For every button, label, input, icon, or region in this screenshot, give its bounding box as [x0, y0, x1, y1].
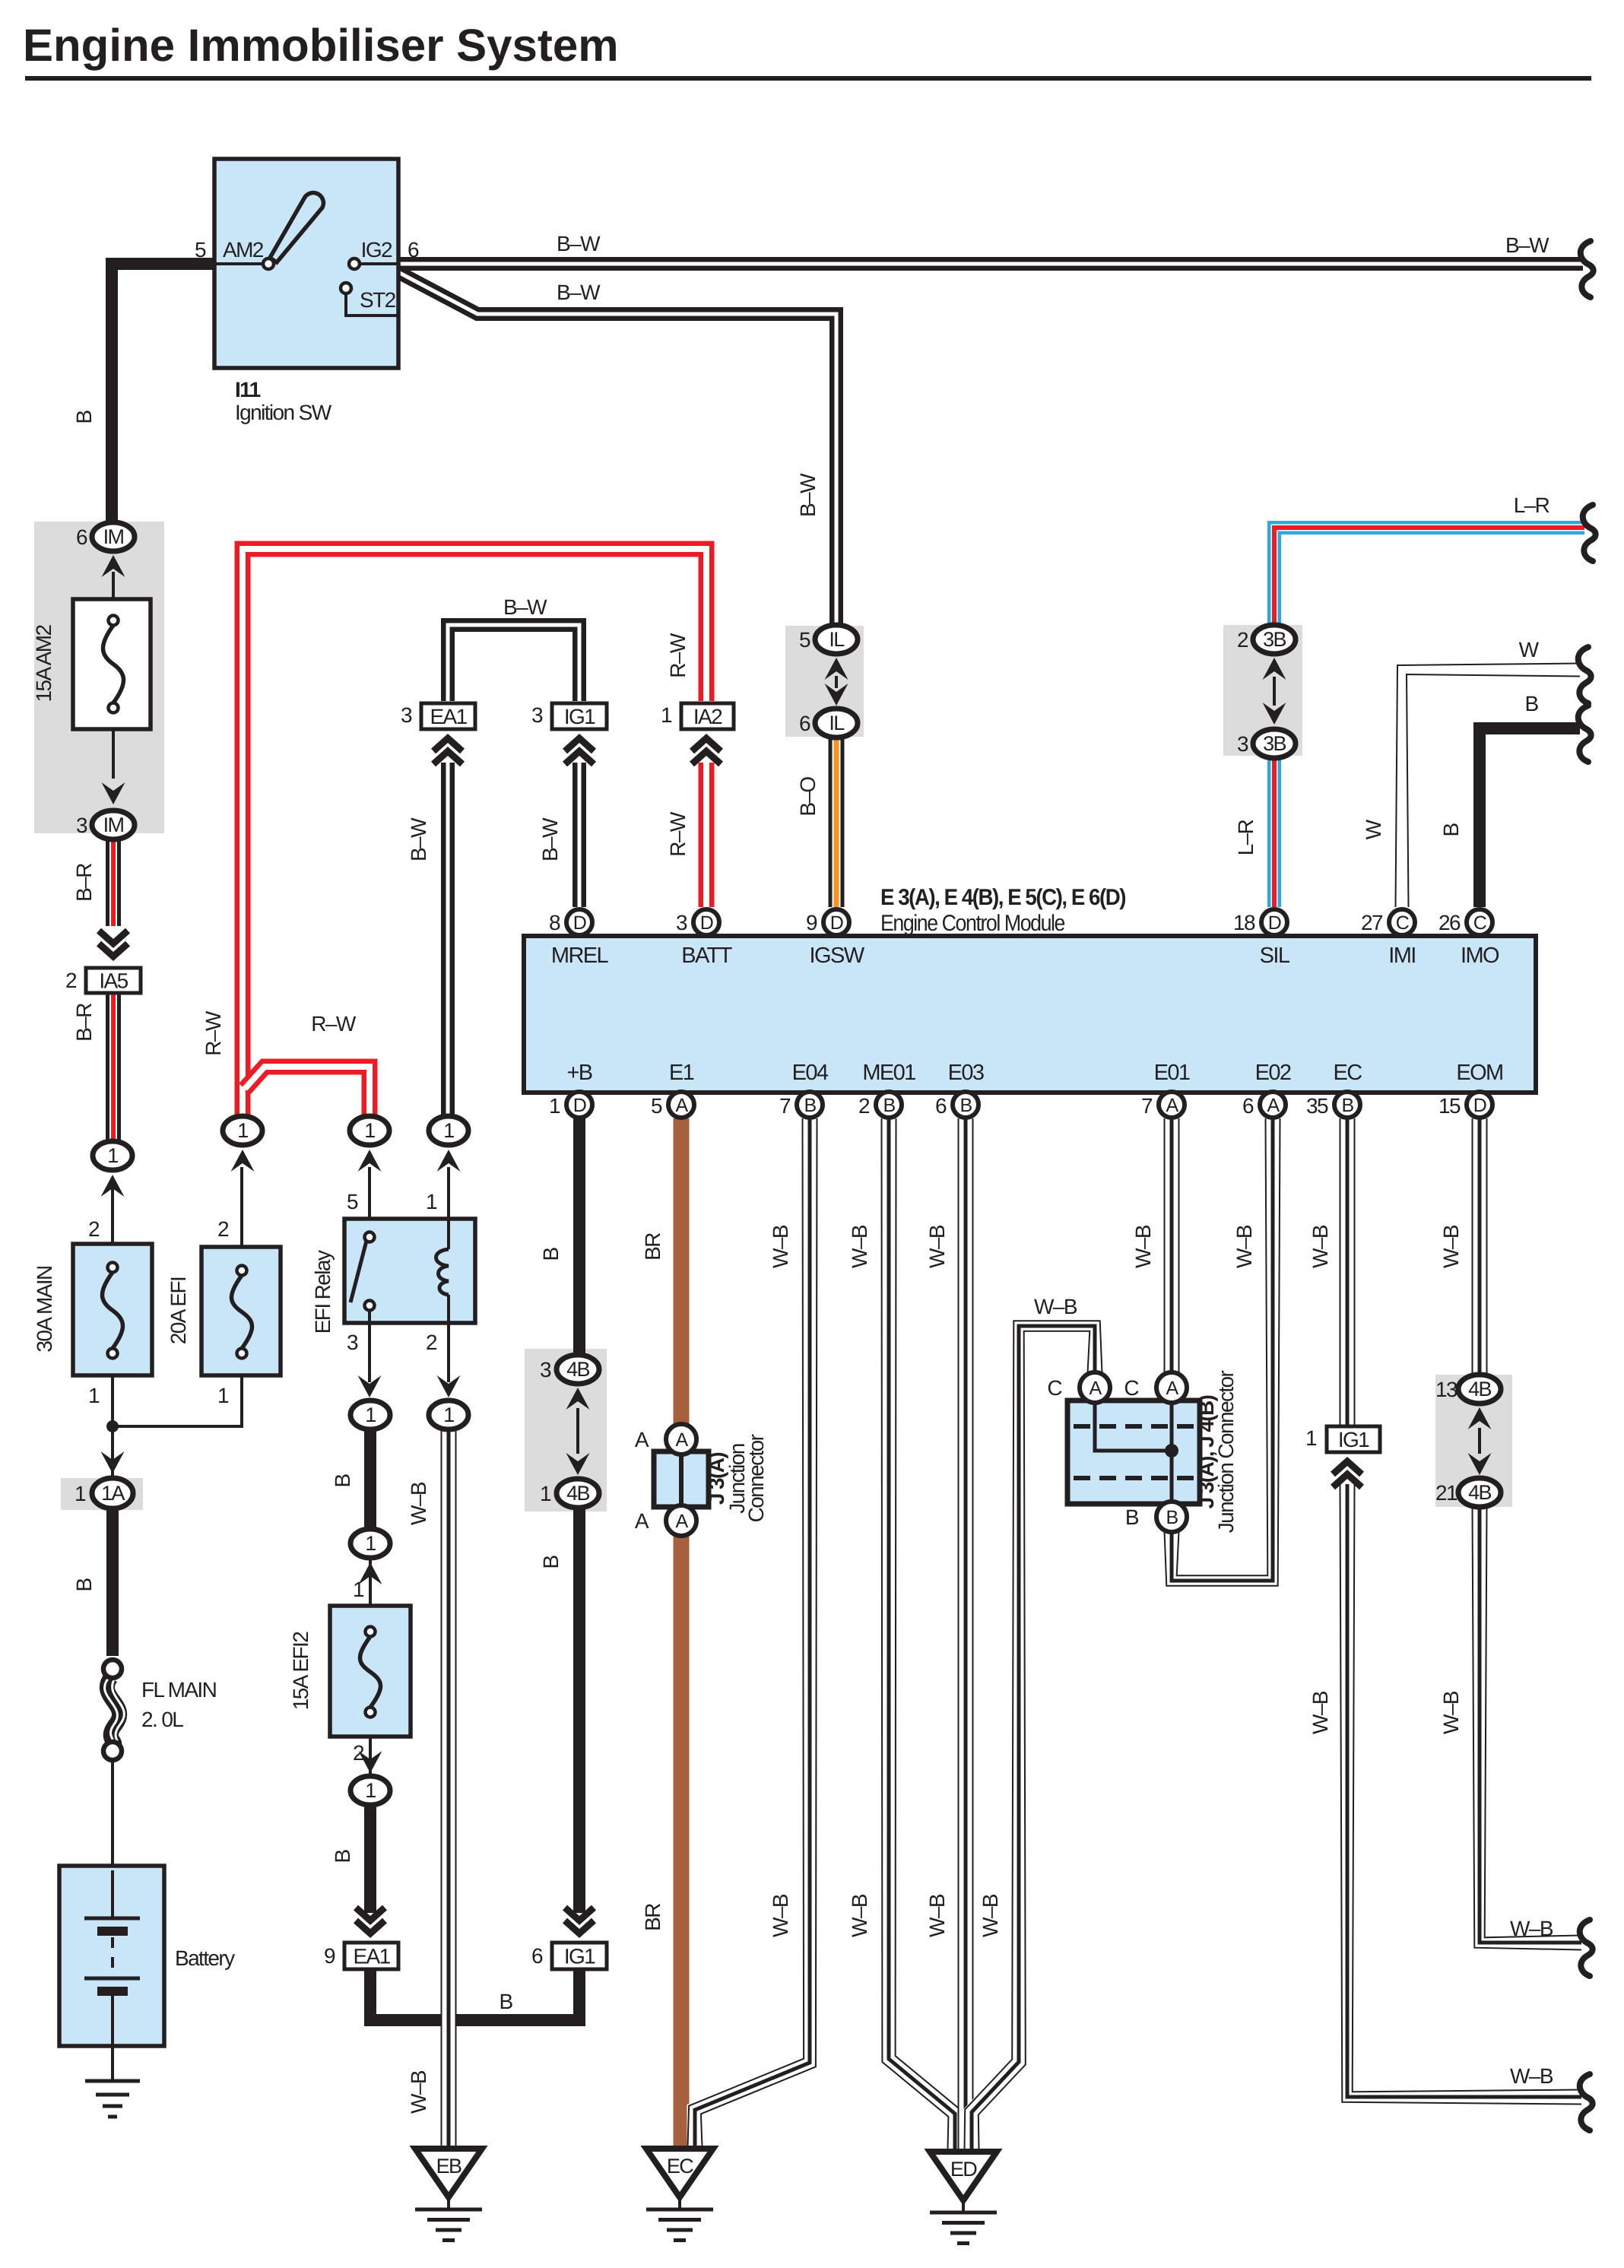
- svg-text:1: 1: [107, 1144, 118, 1167]
- ECM pin 7 E04: [797, 1092, 823, 1118]
- svg-text:B: B: [959, 1095, 972, 1116]
- wire L-R from 3B connector to right edge: [1274, 528, 1584, 625]
- svg-text:W–B: W–B: [979, 1894, 1002, 1937]
- ECM pin 3 BATT: [693, 909, 719, 935]
- svg-text:Junction Connector: Junction Connector: [1214, 1371, 1238, 1534]
- arrow up under 5 IL: [825, 658, 848, 680]
- wire from connector 1 to 15A EFI2 fuse: [369, 1555, 372, 1609]
- svg-text:21: 21: [1435, 1481, 1457, 1505]
- arrow up under 13 4B: [1468, 1407, 1492, 1429]
- wire W-B below 1 IG1 connector: [1347, 1484, 1581, 2097]
- svg-text:R–W: R–W: [201, 1010, 225, 1056]
- connector oval 3 IM: [92, 810, 135, 839]
- connector oval 1 4B: [557, 1479, 599, 1508]
- wire continuation squiggle B-W: [1581, 241, 1594, 297]
- svg-text:18: 18: [1233, 911, 1255, 934]
- arrow down into 3 IM: [102, 782, 125, 804]
- svg-text:B–W: B–W: [407, 817, 430, 861]
- arrow up under oval (relay coil feed): [437, 1150, 461, 1172]
- battery plate short 1: [97, 1927, 128, 1936]
- arrow down into 21 4B: [1468, 1453, 1492, 1475]
- double arrow into 3 IG1: [565, 738, 594, 751]
- ECM pin 8 MREL: [566, 909, 592, 935]
- svg-text:B–W: B–W: [538, 817, 562, 861]
- svg-text:W–B: W–B: [1510, 1917, 1553, 1940]
- wire B from ignition switch AM2 to connector 6 IM: [112, 264, 216, 525]
- svg-text:W–B: W–B: [1308, 1691, 1332, 1734]
- arrow down into 6 IL: [825, 684, 848, 706]
- fuse 15A AM2 box: [73, 599, 151, 729]
- svg-text:3: 3: [347, 1331, 358, 1354]
- svg-text:R–W: R–W: [666, 811, 690, 857]
- svg-text:IG1: IG1: [1338, 1428, 1369, 1451]
- svg-text:3: 3: [531, 703, 543, 727]
- svg-text:W–B: W–B: [407, 2070, 430, 2114]
- junction pin B (bottom): [1156, 1502, 1187, 1532]
- wire continuation squiggle L-R: [1583, 505, 1596, 561]
- wire from EFI relay pin 2 to connector 1: [447, 1323, 450, 1382]
- wire W from ECM IMI to right edge: [1402, 670, 1580, 907]
- connector oval 1 (below EFI2): [350, 1776, 390, 1805]
- svg-text:1: 1: [426, 1190, 437, 1213]
- wire from 30A MAIN to junction and connector 1A: [111, 1372, 114, 1481]
- svg-text:Battery: Battery: [175, 1946, 235, 1970]
- svg-text:6: 6: [935, 1094, 947, 1118]
- svg-text:2: 2: [858, 1094, 870, 1118]
- svg-text:Connector: Connector: [744, 1434, 768, 1522]
- wire B-W from IG2 pin 6 to right edge: [397, 257, 1583, 271]
- wire B from ECM IMO to right edge: [1480, 728, 1580, 907]
- svg-text:W–B: W–B: [769, 1225, 792, 1268]
- svg-text:R–W: R–W: [311, 1012, 357, 1036]
- wire W-B from ECM E02 to junction connector pin B: [1172, 1118, 1273, 1581]
- svg-text:W–B: W–B: [925, 1225, 949, 1268]
- wire B from connector 1A to fusible link FL MAIN: [106, 1508, 119, 1656]
- svg-text:3: 3: [76, 814, 87, 837]
- svg-text:1: 1: [443, 1404, 454, 1426]
- fuse 30A MAIN box: [73, 1244, 152, 1375]
- svg-text:20A EFI: 20A EFI: [167, 1277, 190, 1344]
- svg-text:1: 1: [353, 1578, 364, 1601]
- svg-text:35: 35: [1306, 1094, 1328, 1118]
- svg-text:W–B: W–B: [1439, 1225, 1463, 1268]
- svg-text:6: 6: [76, 525, 87, 549]
- svg-text:SIL: SIL: [1260, 944, 1290, 968]
- svg-text:A: A: [1089, 1378, 1102, 1399]
- ECM pin 26 IMO: [1467, 909, 1492, 935]
- svg-text:W–B: W–B: [848, 1225, 871, 1268]
- svg-text:1: 1: [365, 1404, 376, 1426]
- svg-text:A: A: [635, 1509, 649, 1533]
- svg-text:MREL: MREL: [551, 944, 609, 968]
- junction connector J3(A) pin A bottom: [666, 1505, 696, 1536]
- svg-text:IG1: IG1: [564, 1945, 595, 1968]
- svg-text:6: 6: [1242, 1094, 1254, 1118]
- arrow down into oval (below EFI2): [359, 1751, 382, 1773]
- arrow down into 1A: [101, 1451, 125, 1473]
- double arrow into 1 IA2: [692, 738, 721, 751]
- svg-text:AM2: AM2: [223, 238, 264, 262]
- EFI relay box: [344, 1219, 475, 1323]
- junction pin A right (C): [1156, 1372, 1187, 1403]
- svg-text:IMO: IMO: [1461, 944, 1499, 968]
- svg-text:B–W: B–W: [557, 281, 601, 304]
- wire B-W from IG1 connector down to ECM MREL: [573, 763, 586, 907]
- svg-text:3B: 3B: [1263, 628, 1286, 651]
- wire B-W from EA1 connector down to relay coil connector 1: [441, 763, 455, 1115]
- svg-text:IG2: IG2: [361, 238, 392, 262]
- arrow up under oval (relay pin5 feed): [358, 1150, 382, 1172]
- relay contact top (pin 5): [365, 1232, 375, 1242]
- svg-text:D: D: [700, 912, 713, 934]
- svg-text:B: B: [1125, 1505, 1139, 1529]
- junction connector dashed line 1: [1074, 1424, 1194, 1429]
- ECM pin 27 IMI: [1389, 909, 1415, 935]
- svg-text:4B: 4B: [1468, 1481, 1491, 1504]
- svg-text:B–W: B–W: [557, 232, 601, 255]
- ignition switch internal wire IG2: [360, 262, 398, 265]
- connector oval 1 (relay coil feed): [429, 1116, 468, 1145]
- wire R-W from IA2 to ECM BATT: [699, 763, 715, 907]
- svg-text:1A: 1A: [101, 1482, 125, 1505]
- svg-text:6: 6: [408, 238, 419, 262]
- wire B-R from IA5 to connector 1: [106, 994, 121, 1140]
- connector oval 1 (R-W left): [223, 1116, 262, 1145]
- ECM pin 2 ME01: [876, 1092, 902, 1118]
- engine control module box: [524, 936, 1536, 1093]
- svg-text:W–B: W–B: [1510, 2064, 1553, 2088]
- svg-text:W–B: W–B: [848, 1894, 871, 1937]
- junction connector internal wires: [1095, 1400, 1172, 1451]
- svg-text:1: 1: [75, 1482, 86, 1505]
- svg-text:6: 6: [799, 712, 810, 735]
- fuse 15A AM2 symbol: [109, 616, 119, 626]
- wire W-B from ECM E01 to junction connector pin A: [1164, 1118, 1180, 1373]
- connector shading 3B: [1223, 625, 1302, 756]
- wire W-B from ECM E03 to ground ED: [958, 1118, 974, 2150]
- arrow up under oval 1: [101, 1175, 125, 1197]
- wire R-W branch to relay pin 5 connector: [245, 1067, 370, 1115]
- connector shading 1A: [61, 1478, 143, 1510]
- svg-text:2: 2: [217, 1217, 229, 1241]
- connector shading IL: [785, 626, 864, 737]
- connector oval 2 3B: [1253, 625, 1296, 654]
- connector oval 5 IL: [815, 625, 858, 654]
- svg-text:W–B: W–B: [1439, 1691, 1463, 1734]
- svg-text:B: B: [1524, 692, 1538, 715]
- svg-text:B: B: [331, 1850, 354, 1864]
- ignition switch contact ST2: [341, 283, 351, 293]
- arrow up under 2 3B: [1263, 658, 1286, 680]
- svg-text:W: W: [1519, 638, 1540, 661]
- battery internal wire top: [111, 1870, 114, 1917]
- 4B link wire: [576, 1408, 579, 1454]
- connector shading 4B (left): [525, 1349, 607, 1511]
- svg-text:IA2: IA2: [693, 705, 722, 728]
- svg-text:5: 5: [195, 238, 206, 262]
- svg-text:E04: E04: [792, 1061, 829, 1085]
- ignition switch internal wire ST2: [346, 293, 398, 316]
- wire B-R from connector 3 IM to IA5: [106, 836, 121, 926]
- wire from 15A EFI2 fuse to connector 1: [369, 1734, 372, 1777]
- svg-text:B: B: [539, 1248, 563, 1261]
- wire B from ECM +B down through 4B connectors to connector 6 IG1: [573, 1118, 585, 1356]
- wire continuation squiggle W: [1578, 647, 1591, 703]
- ground EC: [646, 2149, 713, 2197]
- svg-text:B: B: [539, 1556, 563, 1569]
- title underline: [25, 76, 1591, 81]
- svg-text:8: 8: [549, 911, 560, 934]
- ignition switch contact AM2: [263, 259, 274, 269]
- svg-text:EC: EC: [667, 2155, 693, 2178]
- wire BR from ECM E1 to ground EC: [674, 1118, 690, 2147]
- connector shading 4B (right): [1435, 1375, 1512, 1507]
- wire B below 4B connector: [573, 1507, 585, 1913]
- ECM pin 5 E1: [668, 1092, 694, 1118]
- svg-text:A: A: [675, 1095, 688, 1116]
- arrow down into oval (relay pin2 out): [437, 1375, 461, 1397]
- svg-text:W–B: W–B: [1034, 1295, 1077, 1318]
- wire L-R from ECM SIL up through 3B connector: [1267, 757, 1281, 907]
- svg-text:L–R: L–R: [1234, 820, 1258, 855]
- svg-text:FL MAIN: FL MAIN: [141, 1678, 216, 1702]
- wire continuation squiggle W-B upper: [1580, 1920, 1593, 1976]
- svg-text:B: B: [883, 1095, 895, 1116]
- svg-text:IMI: IMI: [1388, 944, 1415, 968]
- svg-text:B: B: [1166, 1507, 1178, 1528]
- svg-text:B: B: [1439, 823, 1463, 837]
- arrow down into 1 4B: [566, 1453, 590, 1475]
- svg-text:B: B: [331, 1474, 354, 1488]
- svg-text:B–W: B–W: [796, 473, 820, 517]
- svg-text:3: 3: [540, 1358, 551, 1381]
- wire B-O from connector 6 IL to ECM IGSW: [829, 738, 845, 907]
- svg-text:EA1: EA1: [353, 1945, 390, 1968]
- double arrow into IA5: [99, 944, 128, 956]
- wire from relay connector 1 to EFI relay pin 5: [368, 1167, 371, 1222]
- svg-text:C: C: [1473, 912, 1487, 934]
- svg-text:B–W: B–W: [1505, 233, 1549, 257]
- svg-text:E02: E02: [1255, 1061, 1291, 1085]
- relay coil: [447, 1219, 450, 1249]
- connector oval 1 (above EFI2): [350, 1529, 390, 1558]
- svg-text:C: C: [1396, 912, 1410, 934]
- svg-text:IM: IM: [103, 525, 124, 548]
- battery box: [59, 1866, 164, 2046]
- IL link wire: [835, 676, 838, 688]
- ECM pin 18 SIL: [1261, 909, 1287, 935]
- junction internal dot: [1165, 1444, 1178, 1458]
- svg-text:B–W: B–W: [503, 595, 547, 619]
- svg-text:IGSW: IGSW: [810, 944, 865, 968]
- svg-text:D: D: [1473, 1095, 1486, 1116]
- svg-text:D: D: [573, 1095, 586, 1116]
- wire B from connector 1 to connector 9 EA1: [364, 1802, 376, 1913]
- arrow up under oval 1 (R-W left): [231, 1150, 255, 1172]
- svg-text:3: 3: [1237, 732, 1248, 756]
- connector box 1 IA2: [681, 703, 734, 729]
- wire B-W loop joining EA1 and IG1 connectors: [448, 625, 579, 701]
- svg-text:13: 13: [1435, 1378, 1457, 1401]
- svg-text:1: 1: [365, 1532, 376, 1555]
- arrow down into 3 3B: [1263, 703, 1286, 725]
- svg-text:R–W: R–W: [666, 633, 690, 678]
- ground ED: [930, 2152, 997, 2200]
- svg-text:ME01: ME01: [862, 1061, 915, 1085]
- svg-text:5: 5: [651, 1094, 662, 1118]
- svg-text:BR: BR: [641, 1904, 665, 1931]
- svg-text:1: 1: [443, 1119, 454, 1142]
- battery plate long 2: [84, 1977, 140, 1981]
- svg-text:B: B: [804, 1095, 816, 1116]
- svg-text:B: B: [72, 411, 96, 424]
- svg-text:IA5: IA5: [99, 969, 128, 993]
- connector box 3 IG1: [552, 703, 607, 729]
- svg-text:5: 5: [799, 628, 810, 652]
- svg-text:B–R: B–R: [72, 1004, 96, 1042]
- connector oval 13 4B: [1458, 1375, 1501, 1404]
- svg-text:W–B: W–B: [925, 1894, 949, 1937]
- wire R-W loop from connector 1 ovals up and over to IA2: [243, 549, 706, 1115]
- svg-text:B: B: [499, 1990, 512, 2013]
- connector oval 3 4B: [557, 1355, 599, 1384]
- fuse 30A MAIN symbol: [108, 1263, 118, 1273]
- connector oval 1 (relay pin3 out): [350, 1400, 390, 1429]
- svg-text:ED: ED: [950, 2158, 977, 2181]
- svg-text:2: 2: [426, 1331, 437, 1354]
- svg-text:A: A: [635, 1428, 649, 1451]
- wire W-B from ECM EC through connector 1 IG1 to right edge: [1340, 1118, 1356, 1428]
- svg-text:15: 15: [1438, 1094, 1461, 1118]
- svg-text:2. 0L: 2. 0L: [141, 1708, 183, 1731]
- wire fuse to 3 IM: [112, 729, 115, 779]
- double arrow into 3 EA1: [433, 738, 462, 751]
- fuse 20A EFI box: [201, 1247, 281, 1375]
- 3B link wire: [1273, 677, 1276, 706]
- ignition switch contact IG2: [349, 259, 360, 269]
- svg-text:L–R: L–R: [1514, 493, 1549, 517]
- svg-text:1: 1: [364, 1119, 375, 1142]
- wire B from relay pin 3 connector to connector 1 (EFI2 feed): [364, 1429, 376, 1530]
- 4B right link wire: [1478, 1428, 1481, 1454]
- svg-text:EFI Relay: EFI Relay: [311, 1250, 335, 1334]
- double arrow up into 1 IG1 (right): [1333, 1461, 1362, 1474]
- battery ground: [85, 2079, 140, 2083]
- svg-text:BR: BR: [641, 1233, 665, 1261]
- svg-text:B–R: B–R: [72, 864, 96, 902]
- svg-text:W–B: W–B: [407, 1482, 430, 1525]
- svg-text:7: 7: [779, 1094, 791, 1118]
- svg-text:EC: EC: [1333, 1061, 1362, 1085]
- connector box 1 IG1 (right): [1327, 1426, 1380, 1452]
- connector shading IM (fuse 15A AM2 block): [34, 522, 164, 833]
- svg-text:IM: IM: [103, 814, 124, 836]
- svg-text:E 3(A), E 4(B), E 5(C), E 6(D): E 3(A), E 4(B), E 5(C), E 6(D): [880, 885, 1126, 910]
- ECM pin 1 +B: [566, 1092, 592, 1118]
- svg-text:+B: +B: [566, 1061, 592, 1085]
- double arrow into 9 EA1: [356, 1921, 385, 1933]
- connector oval 21 4B: [1458, 1478, 1501, 1507]
- wire continuation squiggle B: [1578, 706, 1591, 762]
- ECM pin 15 EOM: [1467, 1092, 1492, 1118]
- battery plate long 1: [84, 1917, 140, 1921]
- connector box 6 IG1: [552, 1943, 607, 1969]
- ignition switch lever: [270, 193, 323, 262]
- connector oval 3 3B: [1253, 729, 1296, 758]
- wire W-B from ECM EOM through 4B connectors to right edge: [1472, 1118, 1488, 1376]
- svg-text:4B: 4B: [566, 1358, 589, 1381]
- svg-text:15A EFI2: 15A EFI2: [289, 1632, 312, 1710]
- junction connector J3(A) J4(B) box: [1067, 1400, 1200, 1504]
- svg-text:BATT: BATT: [681, 944, 732, 968]
- wire W-B from ECM E04 to ground EC: [695, 1118, 810, 2147]
- ECM pin 35 EC: [1334, 1092, 1360, 1118]
- svg-text:1: 1: [365, 1779, 376, 1802]
- wire 6 IM to fuse: [112, 572, 115, 601]
- svg-text:D: D: [1268, 912, 1281, 934]
- svg-text:26: 26: [1438, 911, 1461, 934]
- svg-text:B: B: [1341, 1095, 1353, 1116]
- connector oval 1 (battery feed): [93, 1141, 132, 1170]
- junction pin A left (C): [1080, 1372, 1110, 1403]
- svg-text:W–B: W–B: [1308, 1225, 1332, 1268]
- relay contact bottom (pin 3): [365, 1301, 375, 1311]
- svg-text:W–B: W–B: [769, 1894, 792, 1937]
- svg-text:EOM: EOM: [1456, 1061, 1502, 1085]
- svg-text:Engine Immobiliser System: Engine Immobiliser System: [23, 20, 619, 71]
- battery internal wire bottom: [111, 1996, 114, 2081]
- junction connector dashed line 2: [1074, 1476, 1194, 1480]
- svg-text:A: A: [675, 1511, 688, 1532]
- svg-text:30A MAIN: 30A MAIN: [33, 1266, 56, 1352]
- wire W-B below 21 4B connector: [1480, 1505, 1581, 1943]
- svg-text:1: 1: [549, 1094, 560, 1118]
- fuse 15A EFI2 symbol: [366, 1627, 376, 1637]
- battery dashed link: [111, 1937, 114, 1977]
- ECM pin 7 E01: [1159, 1092, 1185, 1118]
- ECM pin 6 E03: [953, 1092, 979, 1118]
- arrow up under 3 4B: [566, 1388, 590, 1410]
- svg-text:C: C: [1047, 1376, 1062, 1400]
- fuse 20A EFI symbol: [237, 1266, 247, 1276]
- svg-text:2: 2: [1237, 628, 1248, 652]
- svg-text:7: 7: [1141, 1094, 1153, 1118]
- svg-text:1: 1: [1305, 1426, 1317, 1450]
- svg-text:A: A: [1166, 1095, 1178, 1116]
- ECM pin 9 IGSW: [823, 909, 849, 935]
- svg-text:IL: IL: [829, 712, 845, 734]
- svg-text:6: 6: [531, 1944, 543, 1968]
- svg-text:1: 1: [217, 1384, 229, 1407]
- connector oval 6 IL: [815, 709, 858, 737]
- connector box 3 EA1: [421, 703, 475, 729]
- connector box 2 IA5: [86, 968, 141, 993]
- wire W-B from ECM ME01 to ground ED: [889, 1118, 955, 2150]
- svg-text:1: 1: [237, 1119, 248, 1142]
- wire B-W from ST2/IG2 to connector 5 IL: [397, 271, 836, 623]
- svg-text:IG1: IG1: [564, 705, 595, 728]
- svg-text:Engine Control Module: Engine Control Module: [880, 911, 1065, 936]
- svg-text:1: 1: [661, 703, 672, 727]
- wire W-B loop from junction connector pin A to ground ED: [972, 1326, 1095, 2150]
- junction dot: [106, 1420, 119, 1432]
- connector box 9 EA1: [344, 1943, 398, 1969]
- svg-text:IL: IL: [829, 628, 845, 651]
- battery plate short 2: [97, 1987, 128, 1996]
- svg-text:4B: 4B: [1468, 1378, 1491, 1400]
- svg-text:9: 9: [806, 911, 817, 934]
- ignition switch I11 box: [214, 159, 398, 368]
